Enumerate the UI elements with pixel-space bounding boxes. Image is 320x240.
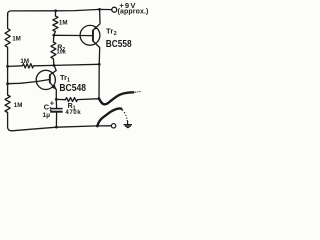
svg-text:BC558: BC558 <box>106 39 132 50</box>
svg-text:1M: 1M <box>14 102 23 109</box>
svg-text:(approx.): (approx.) <box>118 9 149 16</box>
svg-text:10k: 10k <box>57 50 67 56</box>
svg-text:BC548: BC548 <box>59 83 86 94</box>
svg-text:470k: 470k <box>65 109 81 116</box>
svg-text:1M: 1M <box>12 36 21 43</box>
svg-text:+: + <box>50 99 55 108</box>
svg-text:1M: 1M <box>59 19 68 26</box>
svg-text:1µ: 1µ <box>42 112 50 119</box>
svg-text:1M: 1M <box>20 58 29 65</box>
